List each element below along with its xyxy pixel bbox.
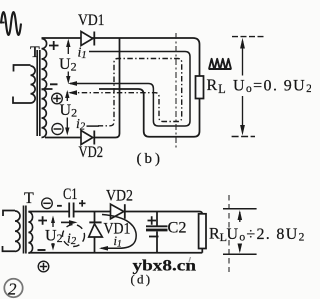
svg-text:RL: RL (209, 226, 227, 245)
svg-text:Uo=0. 9U2: Uo=0. 9U2 (233, 78, 311, 96)
svg-text:U2: U2 (45, 228, 63, 246)
svg-text:i2: i2 (67, 232, 77, 248)
svg-text:U2: U2 (60, 102, 78, 120)
svg-text:i2: i2 (76, 117, 86, 133)
svg-text:2: 2 (8, 280, 17, 299)
svg-text:VD2: VD2 (106, 188, 133, 205)
svg-text:C1: C1 (63, 186, 78, 203)
svg-text:Uo÷2. 8U2: Uo÷2. 8U2 (227, 226, 306, 244)
svg-text:VD1: VD1 (78, 12, 105, 29)
svg-text:VD2: VD2 (79, 144, 104, 161)
svg-text:T: T (24, 190, 34, 207)
svg-text:T: T (30, 44, 40, 61)
svg-text:ybx8.cn: ybx8.cn (133, 258, 197, 275)
svg-text:i1: i1 (78, 46, 87, 62)
svg-text:C2: C2 (168, 220, 187, 237)
svg-text:VD1: VD1 (104, 221, 131, 238)
svg-text:U2: U2 (59, 56, 77, 74)
svg-text:RL: RL (207, 77, 226, 96)
svg-text:(b): (b) (137, 151, 164, 167)
